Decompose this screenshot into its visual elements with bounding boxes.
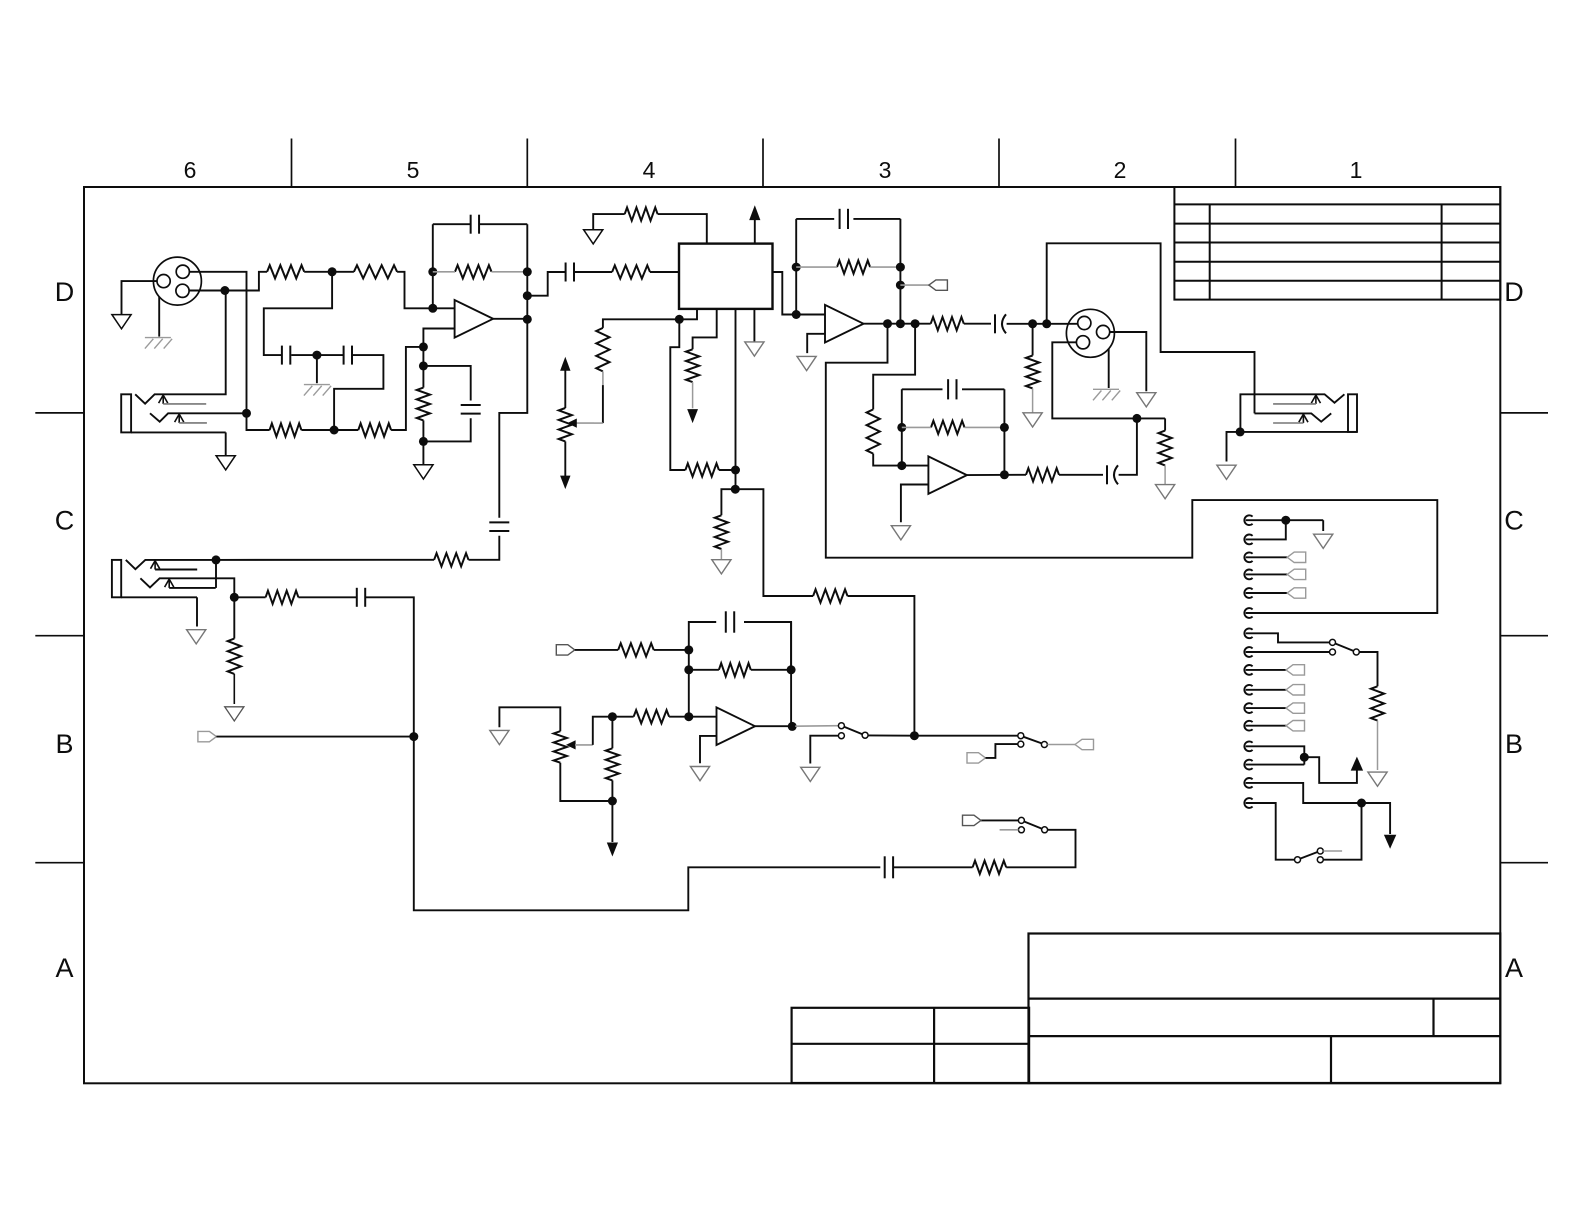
block U2	[679, 244, 773, 309]
switch SW1 common	[862, 732, 868, 738]
wire R27 leads	[902, 426, 931, 428]
wire U4 -in	[901, 485, 929, 523]
node U3 out b	[896, 319, 905, 328]
resistor R19	[634, 710, 670, 723]
node U1 out	[523, 315, 532, 324]
wire R22 to C10	[469, 536, 500, 560]
power VCC arrow U2	[754, 220, 756, 244]
wire pin flag y574.4	[1246, 573, 1288, 575]
power + arrow pot P2	[560, 357, 570, 371]
svg-text:A: A	[1505, 953, 1523, 983]
resistor R24	[266, 591, 299, 604]
wire -in down	[422, 347, 424, 370]
node R9 right	[731, 466, 740, 475]
net flag SW2 in	[967, 753, 986, 763]
zone tick right	[1500, 635, 1548, 637]
wire J5 tip to ring NC	[215, 560, 217, 588]
switch SW5 common	[1042, 827, 1048, 833]
node pins 13-14	[1300, 753, 1309, 762]
wire opamp1 -in	[423, 329, 454, 347]
connector pin 12	[1244, 721, 1252, 731]
jack J2 ring contact	[150, 413, 247, 421]
node U4 +in	[897, 461, 906, 470]
resistor R7	[612, 265, 650, 278]
wire P1 wiper up	[593, 717, 613, 745]
node U3 +in	[792, 310, 801, 319]
switch SW5	[1018, 817, 1024, 823]
capacitor C5 coupling	[565, 263, 567, 282]
resistor R30	[715, 515, 728, 549]
title block	[1029, 934, 1501, 1084]
node -in b	[419, 361, 428, 370]
wire net flag U3	[900, 284, 929, 286]
wire C6 fb loop	[796, 218, 834, 220]
wire XLR2 chassis stem	[1108, 349, 1110, 388]
net flag SW5	[963, 815, 982, 825]
wire R30 to ground	[720, 549, 722, 560]
wire R2 to opamp	[397, 272, 455, 309]
power VEE arrow pins	[1384, 835, 1396, 849]
capacitor C13	[884, 856, 886, 878]
capacitor C3	[461, 404, 481, 406]
wire R7 to U2 block	[650, 271, 679, 273]
node U5 out	[788, 722, 797, 731]
power - arrow pot P2	[564, 441, 566, 476]
connector J1 XLR input	[153, 257, 201, 305]
wire SW2 common to flag	[1047, 744, 1075, 746]
jack J2 ring contact arrow	[175, 414, 184, 422]
wire C7 to XLR2	[1007, 323, 1078, 325]
resistor R5	[422, 366, 424, 388]
ground R13	[1023, 413, 1042, 427]
pot P2 element	[559, 408, 572, 441]
wire pin1	[1246, 519, 1324, 521]
svg-text:C: C	[1504, 506, 1524, 536]
wire R19 leads	[612, 716, 633, 718]
sheet frame	[84, 187, 1500, 1083]
chassis ground XLR1	[145, 337, 171, 339]
wire U2 pinC	[735, 309, 737, 489]
resistor R18 feedback	[719, 663, 751, 676]
node U4 fb right	[1000, 423, 1009, 432]
node J1a	[328, 267, 337, 276]
node R3 right	[523, 267, 532, 276]
wire to VCC arrow	[1304, 757, 1357, 783]
wire R6-R4	[301, 429, 358, 431]
connector pin 4	[1244, 570, 1252, 580]
node lower row	[330, 426, 339, 435]
jack J2 tip contact arrow	[159, 395, 168, 403]
wire R13 to ground	[1032, 388, 1034, 412]
connector J2 TRS jack input	[121, 394, 131, 432]
connector pin 7	[1244, 628, 1252, 638]
ground XLR1 shell	[112, 315, 131, 329]
wire R26 to switch node	[848, 596, 915, 736]
wire SW3 to R16	[1359, 652, 1377, 686]
wire J4 sleeve to ground	[1227, 432, 1241, 462]
resistor R13	[1026, 356, 1039, 389]
ground R16	[1368, 772, 1387, 786]
svg-text:B: B	[1505, 729, 1523, 759]
wire fb right vertical U3	[899, 219, 901, 324]
wire U5 -in to ground	[700, 736, 717, 763]
wire R17 to node	[654, 649, 689, 651]
jack J5 ring arrow	[165, 579, 174, 587]
switch SW2 common	[1041, 742, 1047, 748]
wire SW5 NC stub	[1000, 829, 1019, 831]
wire U5 fb right vertical	[790, 622, 792, 726]
node U3 out c	[911, 319, 920, 328]
wire C8 fb row	[902, 388, 943, 390]
wire ring to R6	[247, 413, 270, 430]
wire pin flag y725.7	[1246, 725, 1286, 727]
net flag SW2 out	[1075, 739, 1094, 749]
wire U5 fb cap loop	[689, 622, 716, 650]
svg-text:4: 4	[643, 157, 656, 183]
switch SW2	[1018, 733, 1024, 739]
wire XLR2 pin2 net up	[1047, 243, 1255, 413]
node -in a	[419, 342, 428, 351]
wire U4 fb vertical	[901, 389, 903, 465]
wire pin flag y708.1	[1246, 707, 1286, 709]
ground R23	[225, 707, 244, 721]
wire C2 wrap to lower row	[334, 355, 383, 430]
wire U4 fb right vertical	[1003, 389, 1005, 475]
capacitor C1	[281, 346, 283, 365]
resistor R9	[685, 463, 719, 476]
node R5 bottom	[419, 437, 428, 446]
node J5 ring	[230, 593, 239, 602]
connector J3 XLR output	[1066, 309, 1114, 357]
wire pin15	[1246, 783, 1362, 803]
wire to C5 coupling	[527, 272, 565, 296]
connector pin 10	[1244, 685, 1252, 695]
wire pin flag y557.3	[1246, 556, 1288, 558]
ground SW1 NC	[801, 767, 820, 781]
svg-text:1: 1	[1350, 157, 1363, 183]
zone tick top	[998, 139, 1000, 188]
wire R8 to ground	[593, 214, 625, 230]
connector J4 TRS jack output	[1240, 394, 1344, 432]
node J5 tip	[212, 555, 221, 564]
wire U5 out to SW1	[795, 725, 838, 728]
ground XLR2 pin1	[1137, 393, 1156, 407]
net flag B	[198, 731, 217, 741]
wire U2 pinD	[753, 309, 755, 342]
wire C1-C2	[291, 354, 343, 356]
resistor R29	[1026, 468, 1059, 481]
wire R5 to ground	[422, 441, 424, 464]
wire U3 out to R28	[873, 324, 915, 410]
wire pin8	[1246, 651, 1330, 653]
wire SW5 to flag	[981, 819, 1018, 821]
wire R24 to C11	[298, 596, 356, 598]
net flag pin y593	[1287, 588, 1306, 598]
wire R20 leads	[611, 717, 613, 749]
capacitor C12 feedback U5	[725, 611, 727, 632]
wire XLR1 pin1 chassis stem	[158, 297, 160, 337]
power - arrow R20	[611, 801, 613, 842]
ground pot P1	[490, 730, 509, 744]
wire C3 bottom	[423, 418, 470, 441]
node C1C2	[312, 351, 321, 360]
ground U5 -in	[690, 767, 709, 781]
wire R28 to U4 +in	[873, 454, 928, 466]
node J4 sleeve	[1236, 427, 1245, 436]
node switch net	[910, 731, 919, 740]
connector pin 5	[1244, 588, 1252, 598]
wire U3 out to pin6 net	[826, 324, 1438, 613]
connector pin 2	[1244, 535, 1252, 545]
node U3 flag tap	[896, 281, 905, 290]
wire XLR2 pin1 to ground	[1110, 332, 1146, 391]
resistor R3 feedback	[455, 265, 492, 278]
wire U1 out	[493, 318, 527, 320]
chassis ground C1C2	[304, 384, 330, 386]
resistor R26	[813, 589, 847, 602]
net flag pin y574.4	[1287, 569, 1306, 579]
net flag pin y669.9	[1286, 665, 1305, 675]
resistor R25	[596, 328, 609, 372]
zone tick top	[762, 139, 764, 188]
wire R13 top	[1032, 324, 1034, 356]
net flag U5 in	[556, 645, 575, 655]
zone tick top	[291, 139, 293, 188]
svg-text:6: 6	[184, 157, 197, 183]
wire fb cap loop	[433, 223, 471, 225]
capacitor C7 output	[994, 314, 996, 333]
wire R9 right	[719, 469, 736, 471]
wire XLR1 pin3	[189, 272, 267, 291]
switch SW4	[1295, 857, 1301, 863]
svg-text:D: D	[55, 277, 75, 307]
resistor R17	[618, 643, 654, 656]
wire pot P1 ground	[499, 707, 560, 731]
capacitor C2	[343, 346, 345, 365]
jack J5 ring contact	[140, 578, 234, 597]
wire SW4 to pin15 net	[1323, 803, 1361, 860]
resistor R21	[973, 861, 1007, 874]
resistor R1	[267, 265, 304, 278]
wire pot P2 wiper	[602, 385, 604, 423]
wire R1-R2	[304, 271, 354, 273]
node U4 fb left	[897, 423, 906, 432]
node C4R3 tap	[523, 291, 532, 300]
op-amp U5	[717, 707, 756, 745]
wire pin flag y689.8	[1246, 689, 1286, 691]
resistor R4	[358, 423, 391, 436]
connector pin 15	[1244, 778, 1252, 788]
wire R18 leads	[689, 669, 719, 671]
zone tick right	[1500, 862, 1548, 864]
wire U3 +in	[796, 314, 825, 316]
ground R5	[414, 465, 433, 479]
ground J4 sleeve	[1217, 465, 1236, 479]
node pin3 junction	[220, 286, 229, 295]
zone tick left	[35, 862, 84, 864]
wire node to SW2	[914, 735, 1017, 737]
connector pin 3	[1244, 552, 1252, 562]
ground J5 sleeve	[187, 630, 206, 644]
resistor R23	[228, 639, 241, 674]
wire C11 down long	[365, 597, 880, 910]
revision table	[1174, 187, 1500, 300]
jack J5 tip arrow	[151, 561, 160, 569]
svg-text:3: 3	[879, 157, 892, 183]
ground R30	[712, 560, 731, 574]
wire U3 out	[864, 323, 931, 325]
capacitor C11	[356, 588, 358, 607]
wire SW1 NC to ground	[810, 736, 838, 764]
node J2 ring junction	[242, 409, 251, 418]
wire C9 up to XLR2 net	[1119, 418, 1137, 474]
resistor R14	[1159, 431, 1172, 466]
node U5 in top	[684, 645, 693, 654]
node XLR2 in a	[1028, 319, 1037, 328]
node +in	[428, 304, 437, 313]
wire fb left vertical U3	[795, 219, 797, 315]
node R11 right	[896, 263, 905, 272]
wire U5 in vertical	[688, 650, 690, 717]
switch SW4 throws	[1317, 848, 1323, 854]
wire R4 up to -in	[391, 347, 423, 430]
node R18 right	[787, 665, 796, 674]
zone tick top	[526, 139, 528, 188]
ground R8	[584, 230, 603, 244]
node pin15 net	[1357, 799, 1366, 808]
wire pin14	[1246, 764, 1305, 766]
zone tick left	[35, 635, 84, 637]
wire R25 top	[603, 319, 679, 328]
net flag pin y708.1	[1286, 703, 1305, 713]
zone tick right	[1500, 412, 1548, 414]
power VCC arrow pins	[1351, 757, 1363, 771]
connector pin 11	[1244, 703, 1252, 713]
wire J1a down to C1	[264, 272, 332, 355]
net flag pin y557.3	[1287, 552, 1306, 562]
wire R16 to ground	[1377, 721, 1379, 770]
wire pin7	[1246, 633, 1330, 642]
wire XLR1 pin2	[189, 272, 246, 414]
jack J4 ring arrow	[1299, 414, 1308, 422]
switch SW3 common	[1353, 649, 1359, 655]
wire J5 ring to R24	[234, 596, 265, 598]
node R19 left	[608, 712, 617, 721]
switch SW3	[1330, 639, 1336, 645]
wire pin2	[1246, 520, 1286, 539]
resistor R22	[434, 553, 468, 566]
wire U5 out	[755, 725, 792, 727]
wire pin16	[1246, 803, 1295, 860]
ground pins 1-2	[1314, 534, 1333, 548]
connector pin 8	[1244, 647, 1252, 657]
wire pin1 ground drop	[1322, 520, 1324, 531]
zone tick top	[1235, 139, 1237, 188]
wire R14 top lead	[1164, 418, 1166, 430]
wire U2 out right	[773, 272, 797, 315]
resistor R8	[625, 208, 658, 221]
wire U5 +in	[689, 716, 717, 718]
net flag pin y689.8	[1286, 685, 1305, 695]
wire U2 pinA jog down	[670, 319, 685, 470]
ground J2 sleeve	[216, 456, 235, 470]
wire pin flag y669.9	[1246, 669, 1286, 671]
svg-text:B: B	[55, 729, 73, 759]
node U2 pinC low	[731, 485, 740, 494]
connector pin 6	[1244, 608, 1252, 618]
wire J2 sleeve to ground	[225, 432, 227, 455]
wire to VEE arrow	[1362, 803, 1391, 834]
wire pot P1 bottom	[560, 763, 612, 801]
wire to C3 top	[423, 366, 470, 401]
wire J5 tip row to R22	[216, 559, 434, 561]
op-amp U4	[928, 456, 967, 494]
wire pinC to R30	[721, 489, 735, 515]
capacitor C9 output	[1106, 465, 1108, 484]
svg-text:2: 2	[1114, 157, 1127, 183]
wire U2 pinB	[693, 309, 717, 349]
wire pin flag y593	[1246, 592, 1288, 594]
wire C10 up to U1 out	[499, 319, 527, 518]
zone tick left	[35, 412, 84, 414]
connector pin 16	[1244, 798, 1252, 808]
node fb left	[428, 267, 437, 276]
jack J4 tip arrow	[1311, 395, 1320, 403]
ground U2 pinD	[745, 342, 764, 356]
node XLR2 in b	[1042, 319, 1051, 328]
capacitor C8 feedback U4	[947, 379, 949, 399]
connector pin 9	[1244, 665, 1252, 675]
svg-text:C: C	[55, 506, 75, 536]
wire flag to R17	[575, 649, 618, 651]
resistor R11 feedback	[837, 261, 870, 274]
node flag B junction	[409, 732, 418, 741]
svg-text:A: A	[55, 953, 73, 983]
ground U3 -in	[797, 356, 816, 370]
wire SW4 stub	[1323, 850, 1342, 852]
resistor R2	[354, 265, 397, 278]
wire U2 top pin to R8	[658, 214, 707, 244]
node U3 out a	[883, 319, 892, 328]
wire U2 pin A	[679, 309, 697, 319]
node XLR2 net	[1132, 414, 1141, 423]
wire XLR2 pin3 out	[1052, 342, 1137, 418]
wire pin13	[1246, 746, 1305, 764]
wire C5 to R7	[574, 271, 612, 273]
pot P1 element	[554, 731, 567, 763]
svg-text:5: 5	[407, 157, 420, 183]
wire U4 out	[967, 474, 1026, 476]
wire C1C2 to chassis	[316, 355, 318, 383]
net flag U3 out	[929, 280, 948, 290]
node pin1-2	[1281, 516, 1290, 525]
resistor R6	[270, 423, 302, 436]
wire SW1 to node	[868, 734, 914, 736]
capacitor C10	[489, 521, 509, 523]
capacitor C4 feedback	[470, 215, 472, 234]
ground U4 -in	[891, 526, 910, 540]
wire R21 up to SW5	[1006, 830, 1075, 868]
resistor R16	[1371, 686, 1384, 720]
wire R29 to C9	[1059, 474, 1103, 476]
wire fb vertical left	[432, 224, 434, 308]
node U5 fb left	[684, 665, 693, 674]
capacitor C6 feedback U3	[839, 209, 841, 229]
connector J5 TRS jack	[112, 560, 121, 597]
resistor R20	[606, 748, 619, 780]
node U3 fb left	[792, 263, 801, 272]
wire R11 leads	[796, 266, 837, 268]
